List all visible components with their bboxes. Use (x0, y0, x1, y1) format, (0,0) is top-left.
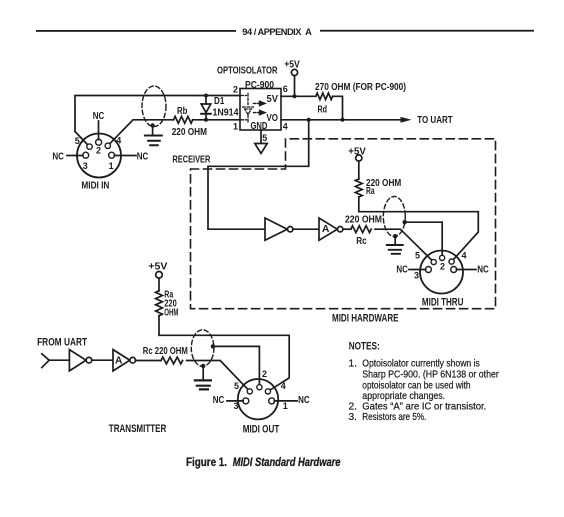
node dot shield to pin 2 net (xmit) (211, 344, 215, 348)
svg-text:5: 5 (75, 136, 80, 146)
svg-text:+5V: +5V (348, 146, 366, 157)
svg-text:+5V: +5V (148, 261, 167, 272)
svg-text:Rb: Rb (177, 106, 188, 117)
MIDI THRU pin 5 hole (431, 259, 436, 264)
wire: MIDI THRU pin 1 to NC stub (456, 269, 476, 271)
svg-text:Optoisolator currently shown i: Optoisolator currently shown is (362, 359, 480, 370)
wire: Rc to MIDI OUT pin 5 (187, 361, 248, 390)
svg-text:Rd: Rd (318, 105, 328, 116)
svg-text:MIDI Standard Hardware: MIDI Standard Hardware (233, 455, 341, 469)
svg-text:FROM UART: FROM UART (37, 336, 87, 348)
svg-text:Rc 220 OHM: Rc 220 OHM (143, 346, 188, 357)
svg-text:+5V: +5V (284, 60, 300, 71)
resistor Ra (thru) (355, 179, 362, 197)
svg-text:1: 1 (233, 121, 238, 131)
+5V supply terminal (receiver) (291, 69, 297, 75)
svg-text:5: 5 (262, 133, 267, 143)
svg-text:appropriate changes.: appropriate changes. (362, 391, 445, 402)
inverter gate (xmit buffer 1) (69, 350, 86, 371)
wire: U1 pin 5 stem (260, 130, 262, 144)
wire: gate 1 to gate A (92, 359, 113, 361)
svg-text:NC: NC (137, 151, 149, 162)
svg-text:RECEIVER: RECEIVER (172, 154, 210, 165)
light arrow lower (U1) (254, 109, 268, 115)
header rule right (320, 30, 534, 32)
svg-text:5: 5 (415, 251, 420, 261)
inverter bubble (thru buffer 1) (288, 227, 293, 232)
wire: gate A to Rc (343, 228, 351, 230)
svg-text:A: A (115, 356, 123, 367)
svg-text:PC-900: PC-900 (245, 80, 274, 91)
wire: diagonal from riser to MIDI IN pin 5 (75, 132, 87, 145)
MIDI IN pin 5 hole (87, 144, 92, 149)
svg-text:4: 4 (283, 122, 288, 132)
svg-text:OHM: OHM (164, 308, 178, 319)
MIDI OUT pin 1 hole (269, 398, 275, 404)
svg-text:TRANSMITTER: TRANSMITTER (109, 423, 167, 435)
svg-text:4: 4 (281, 381, 286, 391)
connector J2 MIDI THRU shell (420, 251, 463, 294)
gate A (xmit buffer 2) (113, 350, 130, 371)
wire: Ra to MIDI OUT pin 4 (159, 316, 289, 390)
wire: NC stub to MIDI IN pin 3 (67, 155, 83, 157)
svg-text:1: 1 (109, 161, 114, 171)
input chevron (from UART) (42, 354, 49, 368)
ground (xmit shield) (195, 366, 211, 389)
connector J1 MIDI IN shell (77, 134, 121, 178)
svg-text:optoisolator can be used with: optoisolator can be used with (362, 380, 470, 391)
svg-text:5V: 5V (267, 94, 279, 105)
cable shield ellipse (MIDI IN) (142, 86, 166, 127)
wire: gate 1 to gate A (293, 228, 319, 230)
wire: input to gate 1 (49, 359, 69, 361)
MIDI IN pin 3 hole (83, 152, 89, 158)
wire: NC stub to MIDI OUT pin 3 (227, 400, 243, 402)
junction dot on shield bottom (xmit) (201, 364, 205, 368)
header rule left (36, 30, 236, 32)
MIDI THRU pin 1 hole (451, 267, 457, 273)
svg-text:3: 3 (83, 161, 88, 171)
inverter gate (thru buffer 1) (265, 218, 287, 240)
svg-text:Ra: Ra (366, 186, 375, 197)
wire: Rb to optoisolator pin 1 (193, 119, 240, 121)
resistor Rd 270 OHM (316, 93, 333, 100)
MIDI OUT pin 2 hole (257, 385, 262, 390)
svg-text:NC: NC (213, 395, 225, 406)
svg-text:5: 5 (234, 381, 239, 391)
wire: Rd down to output net (333, 96, 343, 120)
svg-text:3.: 3. (349, 412, 358, 423)
junction dot on shield (150, 123, 154, 127)
wire: Ra to MIDI THRU pin 4 (359, 197, 479, 260)
svg-text:NC: NC (52, 152, 64, 163)
svg-text:1N914: 1N914 (213, 107, 239, 118)
wire: MIDI IN pin 5 riser and top run to optoisolator pin 2 (75, 96, 240, 132)
inverter bubble (gate A thru) (338, 227, 343, 232)
svg-text:TO UART: TO UART (417, 115, 453, 126)
+5V supply terminal (thru) (356, 155, 362, 161)
svg-text:NC: NC (477, 265, 489, 276)
resistor Rc (thru) (351, 226, 371, 233)
ground (MIDI IN shield) (145, 126, 162, 146)
node dot shield to pin 2 net (thru) (403, 220, 407, 224)
svg-text:3: 3 (234, 401, 239, 411)
svg-text:4: 4 (116, 136, 121, 146)
svg-text:4: 4 (462, 251, 467, 261)
wire: tap down and around into MIDI hardware box to gate input (208, 120, 309, 229)
svg-text:2: 2 (262, 369, 267, 379)
svg-text:2.: 2. (349, 401, 358, 412)
svg-text:220 OHM: 220 OHM (172, 127, 207, 138)
MIDI THRU pin 4 hole (449, 259, 454, 264)
connector J3 MIDI OUT shell (238, 379, 278, 419)
svg-text:Gates “A” are IC or transistor: Gates “A” are IC or transistor. (362, 401, 486, 412)
optoisolator U1 PC-900 body (240, 89, 281, 131)
ground (thru shield) (387, 236, 403, 254)
node dot output tap to MIDI hardware (307, 118, 311, 122)
svg-text:220 OHM: 220 OHM (345, 215, 382, 226)
wire: +5V terminal to Ra (358, 161, 360, 179)
dashed enclosure MIDI HARDWARE (191, 139, 496, 309)
wire: MIDI IN pin 1 to NC stub (114, 155, 136, 157)
wire: +5V terminal down to pin 6 net (294, 76, 296, 97)
svg-text:94 / APPENDIX A: 94 / APPENDIX A (242, 27, 312, 37)
wire: U1 pin 6 to Rd (281, 95, 316, 97)
diode D1 1N914 (201, 96, 211, 120)
MIDI OUT pin 3 hole (243, 398, 249, 404)
svg-text:OPTOISOLATOR: OPTOISOLATOR (217, 66, 278, 77)
gate A (thru buffer 2) (319, 218, 337, 240)
svg-text:GND: GND (251, 121, 268, 132)
MIDI IN pin 4 hole (105, 143, 110, 148)
svg-text:1: 1 (283, 401, 288, 411)
svg-text:MIDI OUT: MIDI OUT (243, 424, 280, 436)
inverter bubble (xmit buffer 1) (86, 357, 92, 363)
+5V supply terminal (xmit) (156, 272, 163, 279)
node dot at D1 anode (204, 94, 208, 98)
resistor Rb (174, 116, 193, 123)
inverter bubble (gate A xmit) (130, 357, 136, 363)
svg-text:NC: NC (93, 111, 105, 122)
wire: MIDI IN pin 4 diagonal up to lower run toward Rb (110, 120, 174, 144)
arrowhead TO UART (401, 117, 412, 123)
wire: NC stub down to MIDI IN pin 2 (98, 121, 100, 140)
svg-text:Resistors are 5%.: Resistors are 5%. (362, 412, 426, 423)
wire: +5V terminal to Ra (158, 278, 160, 291)
cable shield ellipse (xmit) (191, 330, 214, 366)
cable shield ellipse (thru) (383, 197, 405, 237)
wire: U1 pin 4 output run to UART (281, 119, 402, 121)
svg-text:270 OHM (FOR PC-900): 270 OHM (FOR PC-900) (315, 82, 406, 93)
svg-text:MIDI THRU: MIDI THRU (422, 296, 464, 308)
node dot +5V / pin 6 (293, 94, 297, 98)
svg-text:Sharp PC-900. (HP 6N138 or oth: Sharp PC-900. (HP 6N138 or other (362, 369, 499, 380)
svg-text:6: 6 (283, 84, 288, 94)
MIDI OUT pin 4 hole (265, 389, 270, 394)
svg-text:MIDI IN: MIDI IN (81, 181, 109, 192)
svg-text:D1: D1 (214, 96, 225, 107)
svg-text:NC: NC (298, 395, 310, 406)
svg-text:1.: 1. (349, 359, 358, 370)
resistor Rc (xmit) (161, 357, 183, 364)
junction dot on shield bottom (thru) (393, 234, 397, 238)
svg-text:MIDI HARDWARE: MIDI HARDWARE (332, 312, 399, 324)
MIDI THRU pin 3 hole (425, 267, 431, 273)
wire: shield to MIDI OUT pin 2 (213, 346, 260, 385)
MIDI IN pin 1 hole (109, 152, 115, 158)
svg-text:3: 3 (414, 271, 419, 281)
wire: Rc to MIDI THRU pin 5 (375, 229, 432, 260)
svg-text:A: A (322, 224, 330, 235)
svg-text:Figure 1.: Figure 1. (186, 455, 227, 469)
MIDI THRU pin 2 hole (440, 255, 445, 260)
node dot Rd join (341, 118, 345, 122)
svg-text:NC: NC (396, 265, 408, 276)
ground (U1 pin 5, open triangle) (255, 144, 267, 154)
wire: MIDI OUT pin 1 to NC stub (274, 400, 297, 402)
svg-text:2: 2 (233, 84, 238, 94)
wire: shield to MIDI THRU pin 2 (405, 222, 443, 255)
wire: gate A to Rc (136, 360, 162, 362)
svg-text:2: 2 (440, 261, 445, 271)
light arrow upper (U1) (254, 100, 268, 106)
svg-text:2: 2 (96, 146, 101, 156)
svg-text:Rc: Rc (356, 236, 367, 247)
LED inside U1 (dashed) (241, 94, 254, 123)
MIDI IN pin 2 hole (96, 139, 102, 145)
MIDI OUT pin 5 hole (247, 389, 252, 394)
node dot at D1 cathode (204, 118, 208, 122)
svg-text:VO: VO (267, 113, 279, 124)
wire: NC stub to MIDI THRU pin 3 (409, 269, 426, 271)
svg-text:NOTES:: NOTES: (349, 341, 380, 353)
resistor Ra (xmit) (156, 291, 163, 316)
